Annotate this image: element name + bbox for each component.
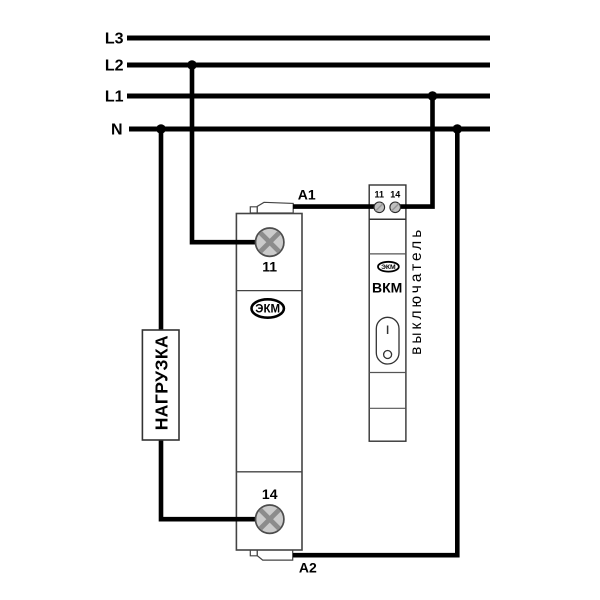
contactor divider lower	[236, 471, 302, 473]
svg-text:НАГРУЗКА: НАГРУЗКА	[151, 335, 171, 430]
bus line L2	[127, 63, 490, 68]
switch body ВКМ	[369, 185, 406, 441]
svg-text:L2: L2	[105, 58, 124, 75]
wire L1 to switch terminal 14	[394, 96, 433, 207]
logo ЭКМ (contactor)	[252, 299, 284, 317]
switch screw terminal 14	[390, 202, 401, 213]
bus line L3	[127, 36, 490, 41]
junction node on L1	[428, 91, 438, 101]
svg-text:14: 14	[390, 190, 400, 200]
bus line N	[129, 127, 490, 132]
svg-text:ЭКМ: ЭКМ	[255, 304, 280, 316]
switch divider 2	[369, 253, 406, 255]
contactor bottom tab A2	[250, 550, 292, 560]
svg-text:L3: L3	[105, 31, 124, 48]
junction node on N (left)	[156, 124, 166, 134]
contactor body K1	[236, 214, 302, 551]
svg-text:11: 11	[375, 190, 385, 200]
switch divider 4	[369, 407, 406, 409]
wire L2 to contactor terminal 11	[192, 65, 258, 242]
rocker switch button	[376, 317, 399, 364]
svg-text:ВКМ: ВКМ	[372, 279, 402, 295]
svg-text:N: N	[111, 122, 123, 139]
contactor coil terminal 11 (crossed circle)	[255, 228, 284, 257]
wire N to contactor A2	[293, 129, 457, 555]
logo ЭКМ (switch)	[378, 262, 399, 272]
contactor top tab A1	[250, 202, 293, 213]
junction node on L2	[187, 60, 197, 70]
switch divider below screws	[369, 218, 406, 220]
switch screw terminal 11	[374, 202, 385, 213]
svg-text:14: 14	[262, 486, 278, 502]
svg-text:11: 11	[262, 259, 277, 275]
contactor divider upper	[236, 290, 302, 292]
svg-text:L1: L1	[105, 89, 124, 106]
bus line L1	[127, 94, 490, 99]
svg-text:выключатель: выключатель	[408, 227, 425, 355]
wire load bottom to contactor terminal 14	[161, 439, 258, 519]
svg-text:A1: A1	[298, 187, 316, 203]
junction node on N (right)	[453, 124, 463, 134]
load box НАГРУЗКА	[142, 330, 179, 440]
svg-text:A2: A2	[299, 560, 317, 576]
svg-text:ЭКМ: ЭКМ	[381, 264, 396, 271]
wire N to load top	[159, 129, 164, 331]
contactor coil terminal 14 (crossed circle)	[255, 505, 284, 534]
wire A1 contactor to switch terminal 11	[293, 204, 381, 209]
switch divider 3	[369, 372, 406, 374]
